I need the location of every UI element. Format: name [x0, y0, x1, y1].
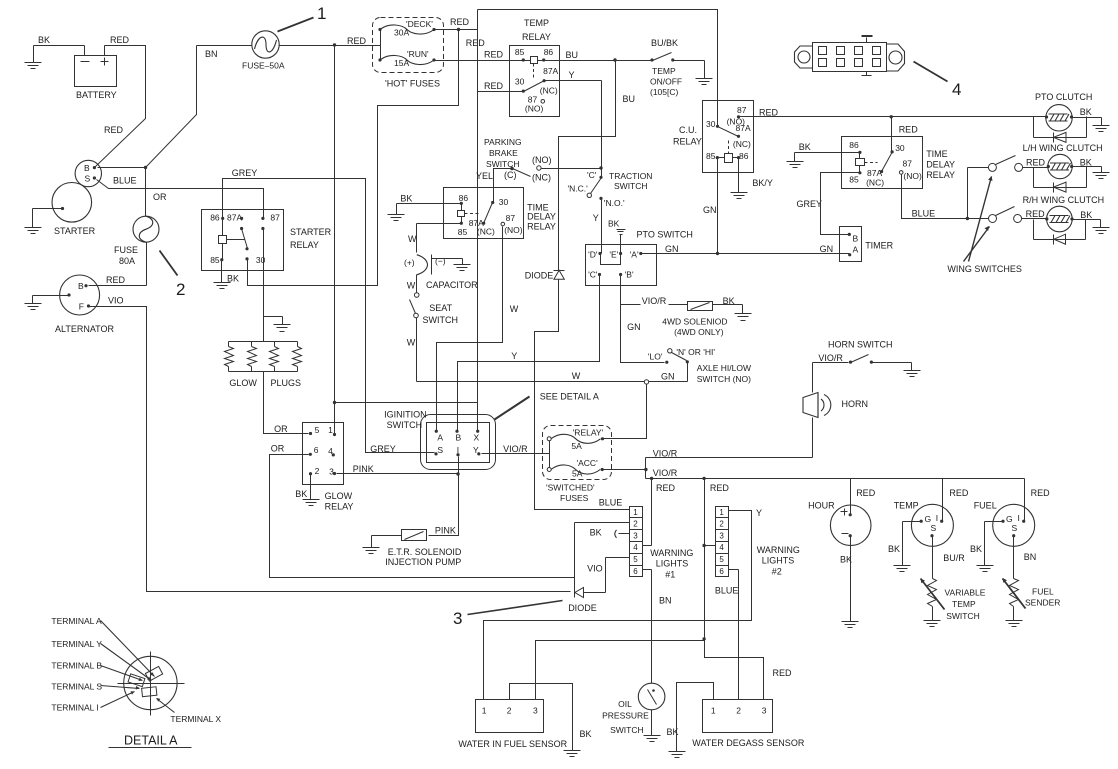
label wing switches [947, 176, 1022, 274]
svg-text:VIO/R: VIO/R [818, 353, 843, 363]
svg-text:86: 86 [210, 212, 220, 222]
svg-text:TEMP: TEMP [952, 599, 976, 609]
diode D5 (R/H clutch) [1054, 234, 1066, 244]
svg-text:BK: BK [400, 194, 412, 204]
wire VIO alternator F [89, 296, 571, 592]
svg-text:HORN SWITCH: HORN SWITCH [828, 340, 893, 350]
svg-text:BN: BN [659, 595, 672, 605]
wire relay fuse to W node [603, 385, 647, 439]
svg-text:BU: BU [566, 50, 579, 60]
temp relay K2 box [510, 18, 560, 117]
svg-text:W: W [510, 304, 519, 314]
svg-text:1: 1 [711, 706, 716, 716]
pto pins [588, 250, 642, 280]
callout 4 arrow [914, 62, 962, 100]
svg-text:FUSE: FUSE [114, 245, 138, 255]
wire BLUE starter S to relay 87 [97, 176, 264, 219]
wire VIO/R 4wd branch [621, 296, 688, 306]
svg-text:VIO/R: VIO/R [653, 468, 678, 478]
wire top run to C.U. relay [478, 10, 718, 127]
svg-text:RED: RED [110, 35, 130, 45]
svg-text:DIODE: DIODE [568, 603, 597, 613]
svg-text:BLUE: BLUE [715, 585, 739, 595]
svg-text:B: B [456, 433, 462, 443]
svg-text:6: 6 [633, 567, 638, 576]
svg-text:BU/R: BU/R [943, 553, 965, 563]
diode D2 (pto clutch) [1053, 132, 1066, 142]
svg-text:'SWITCHED': 'SWITCHED' [546, 483, 595, 493]
wire RED run fuse to temp relay [435, 50, 531, 61]
wire BK K5 86 ground [787, 142, 860, 168]
svg-text:A: A [853, 244, 859, 254]
svg-text:Y: Y [569, 70, 575, 80]
svg-text:'N' OR 'HI': 'N' OR 'HI' [676, 347, 715, 357]
svg-text:87: 87 [270, 212, 280, 222]
water degass sensor B3 [692, 700, 805, 749]
svg-text:OIL: OIL [618, 699, 632, 709]
svg-text:#2: #2 [772, 567, 782, 577]
svg-text:GREY: GREY [797, 199, 823, 209]
svg-text:HOUR: HOUR [808, 500, 835, 510]
svg-text:TERMINAL B: TERMINAL B [51, 661, 102, 671]
svg-text:RED: RED [773, 668, 793, 678]
svg-text:87A: 87A [227, 212, 242, 222]
wire BN fuse-50A left [146, 46, 252, 168]
wing switch S6 (upper) [968, 156, 1046, 219]
svg-text:STARTER: STARTER [290, 227, 332, 237]
wire BU down to diode [559, 61, 636, 271]
svg-text:4WD SOLENIOD: 4WD SOLENIOD [662, 316, 727, 326]
diode D4 (L/H clutch) [1053, 182, 1066, 192]
svg-text:5A: 5A [572, 469, 583, 479]
svg-text:BK: BK [888, 544, 900, 554]
fuel sender RT2 [1003, 536, 1061, 609]
svg-text:1: 1 [633, 508, 638, 517]
svg-text:85: 85 [515, 47, 525, 57]
svg-text:VIO: VIO [587, 564, 603, 574]
svg-text:1: 1 [328, 425, 333, 435]
svg-text:A: A [437, 433, 443, 443]
svg-text:3: 3 [719, 531, 724, 540]
svg-text:RED: RED [759, 108, 779, 118]
svg-text:'D': 'D' [588, 250, 598, 260]
svg-text:WATER DEGASS SENSOR: WATER DEGASS SENSOR [692, 738, 805, 748]
svg-text:STARTER: STARTER [54, 226, 96, 236]
svg-text:HORN: HORN [842, 399, 869, 409]
warning lights WL2 box [716, 507, 800, 577]
svg-text:RELAY: RELAY [673, 137, 702, 147]
svg-text:TERMINAL S: TERMINAL S [51, 681, 102, 691]
ground (pto E) BK [608, 219, 626, 254]
svg-text:GN: GN [661, 372, 675, 382]
svg-text:WATER IN FUEL SENSOR: WATER IN FUEL SENSOR [458, 739, 567, 749]
wire parking brake NO to Y line [542, 166, 603, 169]
svg-text:BK: BK [1080, 210, 1092, 220]
svg-text:3: 3 [633, 531, 638, 540]
svg-text:4: 4 [952, 80, 961, 99]
svg-text:TERMINAL Y: TERMINAL Y [51, 639, 102, 649]
ground (fuel G) BK [970, 522, 1004, 572]
traction switch S3 [568, 170, 653, 208]
svg-text:GLOW: GLOW [229, 378, 257, 388]
svg-text:BK: BK [295, 489, 307, 499]
wire water-in-fuel 2 ground BK [510, 684, 592, 757]
svg-text:BATTERY: BATTERY [76, 90, 117, 100]
svg-text:PTO SWITCH: PTO SWITCH [637, 230, 693, 240]
svg-text:S: S [1012, 523, 1018, 533]
wire RED deck fuse out [435, 17, 478, 30]
callout 3 arrow [453, 601, 563, 629]
svg-text:RED: RED [106, 275, 126, 285]
svg-text:2: 2 [176, 280, 185, 299]
warning lights WL1 box [630, 507, 694, 580]
wire BLUE diode to warning1 row1 [535, 280, 630, 510]
K5 pins [849, 140, 922, 188]
svg-text:'B': 'B' [625, 270, 634, 280]
svg-text:15A: 15A [394, 58, 409, 68]
svg-text:86: 86 [849, 140, 859, 150]
fuse F1 FUSE-50A [242, 31, 285, 71]
timer U1 [840, 227, 894, 262]
wire BK battery negative [34, 35, 85, 46]
svg-text:86: 86 [544, 47, 554, 57]
svg-text:WING SWITCHES: WING SWITCHES [947, 264, 1022, 274]
svg-text:RED: RED [347, 36, 367, 46]
svg-text:SWITCH: SWITCH [614, 181, 648, 191]
svg-text:(4WD ONLY): (4WD ONLY) [674, 327, 724, 337]
starter solenoid terminals [75, 160, 101, 186]
svg-text:BK: BK [580, 729, 592, 739]
switched fuses box [543, 426, 612, 504]
svg-text:TEMP: TEMP [524, 18, 549, 28]
fuse F5 RELAY 5A [547, 428, 604, 470]
svg-text:SWITCH: SWITCH [423, 315, 459, 325]
fuse F6 ACC 5A [547, 458, 604, 478]
node junction starter B [98, 166, 148, 169]
fuse F3 DECK 30A [378, 19, 435, 61]
fuse F2 FUSE 80A [114, 216, 159, 266]
svg-text:2: 2 [507, 706, 512, 716]
wire RED accessory line [646, 477, 1051, 499]
wire VIO/R ignition Y to fuses [482, 444, 550, 454]
svg-text:SWITCH: SWITCH [486, 159, 520, 169]
clutch M3 L/H [1023, 143, 1103, 187]
svg-text:RED: RED [899, 124, 919, 134]
starter relay K1 box [202, 210, 332, 271]
svg-text:'A': 'A' [630, 250, 639, 260]
svg-text:RED: RED [1031, 488, 1051, 498]
svg-text:RED: RED [1026, 209, 1046, 219]
svg-text:RELAY: RELAY [522, 32, 551, 42]
wire RED fuse 80A to alternator B [89, 243, 147, 286]
node connector (W line) [644, 380, 648, 384]
wire BN WL1 row6 to oil switch [643, 570, 672, 684]
glow relay pins [309, 425, 336, 477]
svg-text:RELAY: RELAY [290, 240, 319, 250]
svg-text:OR: OR [153, 192, 167, 202]
svg-text:85: 85 [849, 175, 859, 185]
ground (alternator) [25, 296, 70, 310]
svg-text:85: 85 [458, 227, 468, 237]
svg-text:5: 5 [633, 555, 638, 564]
svg-text:BK: BK [970, 544, 982, 554]
wire YEL parking brake to TDR 30 [476, 169, 513, 203]
wire GN C.U. 85 down [703, 158, 718, 254]
svg-text:SWITCH: SWITCH [387, 420, 423, 430]
svg-text:BK: BK [590, 527, 602, 537]
svg-text:INJECTION PUMP: INJECTION PUMP [385, 557, 461, 567]
svg-text:SEE DETAIL A: SEE DETAIL A [540, 392, 599, 402]
wire Y traction NO to PTO D [593, 199, 602, 254]
wire BU temp relay 86 [560, 50, 653, 62]
connector stub WL1 row3 BK [590, 527, 630, 538]
diode D1 (BU to warning light) [525, 270, 565, 280]
svg-text:BK: BK [608, 219, 620, 229]
svg-text:PRESSURE: PRESSURE [602, 711, 649, 721]
svg-text:6: 6 [719, 567, 724, 576]
ground (battery negative) [25, 46, 42, 69]
svg-text:RED: RED [104, 125, 124, 135]
glow plugs GP1 [225, 342, 302, 389]
ground (capacitor) [432, 259, 471, 271]
svg-text:B: B [853, 234, 859, 244]
svg-text:'N.O.': 'N.O.' [604, 198, 625, 208]
svg-text:(C): (C) [504, 170, 517, 180]
svg-text:BK: BK [38, 35, 50, 45]
wire GN pto B to axle LO [621, 275, 665, 363]
horn switch S9 [828, 340, 893, 364]
svg-text:5: 5 [719, 555, 724, 564]
glow relay K6 box [303, 423, 354, 512]
svg-text:2: 2 [736, 706, 741, 716]
svg-text:85: 85 [706, 151, 716, 161]
hot fuses box [373, 18, 444, 89]
svg-text:30: 30 [499, 197, 509, 207]
ground (C.U. 86) BK/Y [731, 158, 773, 199]
svg-text:W: W [572, 371, 581, 381]
svg-text:(NO): (NO) [903, 171, 922, 181]
svg-text:I: I [1018, 513, 1020, 523]
oil pressure switch S10 [602, 683, 665, 735]
svg-text:TEMP: TEMP [894, 501, 919, 511]
wire BK K3 86 ground [388, 194, 462, 221]
variable temp switch RT1 [921, 536, 986, 622]
svg-text:BLUE: BLUE [912, 209, 936, 219]
svg-text:LIGHTS: LIGHTS [762, 556, 795, 566]
wire WL1 row4 to acc line [643, 479, 652, 546]
svg-text:1: 1 [719, 508, 724, 517]
svg-text:E.T.R. SOLENOID: E.T.R. SOLENOID [388, 547, 462, 557]
svg-text:30: 30 [515, 76, 525, 86]
wire VIO/R horn feed [646, 418, 813, 479]
svg-text:DELAY: DELAY [926, 159, 955, 169]
svg-text:3: 3 [533, 706, 538, 716]
svg-text:TERMINAL X: TERMINAL X [170, 714, 221, 724]
svg-text:RED: RED [856, 488, 876, 498]
svg-text:'RELAY': 'RELAY' [573, 428, 604, 438]
svg-text:GN: GN [703, 205, 717, 215]
svg-text:6: 6 [314, 445, 319, 455]
svg-text:FUSE–50A: FUSE–50A [242, 61, 285, 71]
label see detail a [495, 392, 599, 420]
svg-text:'RUN': 'RUN' [407, 49, 429, 59]
wire RED WL2 row4 to degass 3 [702, 546, 792, 700]
svg-text:(105[C): (105[C) [650, 87, 679, 97]
svg-text:SWITCH (NO): SWITCH (NO) [697, 374, 751, 384]
svg-text:RED: RED [949, 488, 969, 498]
svg-text:'DECK': 'DECK' [406, 19, 433, 29]
battery B1 [75, 46, 117, 101]
svg-text:'C': 'C' [588, 270, 598, 280]
svg-text:5A: 5A [571, 441, 582, 451]
svg-text:85: 85 [210, 255, 220, 265]
svg-text:86: 86 [459, 193, 469, 203]
ground (glow plugs) [264, 317, 291, 332]
connector J1 [795, 36, 905, 76]
wire Y temp relay 87A to traction C [545, 70, 602, 178]
svg-text:1: 1 [482, 706, 487, 716]
svg-text:4: 4 [633, 543, 638, 552]
ground (variable temp) [924, 607, 941, 627]
svg-text:F: F [79, 302, 84, 312]
svg-text:87A: 87A [867, 168, 882, 178]
svg-text:C.U.: C.U. [679, 125, 697, 135]
wire RED C.U. 87 to PTO clutch [739, 108, 1047, 135]
svg-text:87: 87 [903, 158, 913, 168]
svg-text:B: B [84, 163, 90, 173]
svg-text:AXLE HI/LOW: AXLE HI/LOW [697, 363, 751, 373]
svg-text:2: 2 [315, 466, 320, 476]
svg-text:PTO CLUTCH: PTO CLUTCH [1035, 92, 1092, 102]
callout 2 arrow [160, 251, 186, 300]
svg-text:TEMP: TEMP [652, 66, 676, 76]
svg-text:87: 87 [506, 213, 516, 223]
svg-text:30: 30 [256, 255, 266, 265]
svg-text:(NO): (NO) [532, 155, 552, 165]
detail A terminal labels [51, 616, 221, 724]
svg-text:RELAY: RELAY [527, 222, 556, 232]
svg-text:'LO': 'LO' [648, 352, 663, 362]
svg-text:IGINITION: IGINITION [384, 410, 427, 420]
svg-text:W: W [408, 234, 417, 244]
svg-text:RED: RED [450, 17, 470, 27]
svg-text:BRAKE: BRAKE [489, 148, 518, 158]
diode D6 VIO [568, 588, 605, 614]
svg-text:I: I [936, 513, 938, 523]
axle switch S5 [648, 347, 751, 384]
svg-text:DIODE: DIODE [525, 270, 554, 280]
svg-text:R/H WING CLUTCH: R/H WING CLUTCH [1023, 195, 1105, 205]
wire Y pto C to ignition B [458, 275, 600, 432]
svg-text:L/H WING CLUTCH: L/H WING CLUTCH [1023, 143, 1103, 153]
svg-text:TERMINAL I: TERMINAL I [51, 702, 98, 712]
K3 pins [458, 193, 523, 237]
svg-text:SENDER: SENDER [1025, 598, 1060, 608]
pto switch S4 box [586, 230, 693, 286]
wing switch S7 (lower) [989, 207, 1046, 223]
svg-text:DELAY: DELAY [527, 212, 556, 222]
svg-text:FUEL: FUEL [1032, 587, 1054, 597]
svg-text:4: 4 [719, 543, 724, 552]
wire W K3 85 to capacitor [408, 224, 462, 253]
svg-text:2: 2 [633, 520, 638, 529]
svg-text:WARNING: WARNING [650, 548, 693, 558]
svg-text:DETAIL A: DETAIL A [124, 733, 178, 747]
svg-text:SWITCH: SWITCH [946, 611, 980, 621]
wire K5 30 from PTO clutch feed [891, 117, 893, 152]
parking brake switch S1 [484, 137, 552, 183]
svg-text:BK: BK [227, 274, 239, 284]
svg-text:87A: 87A [736, 123, 751, 133]
svg-text:(NC): (NC) [866, 178, 884, 188]
seat switch S2 [407, 275, 458, 348]
ground (temp G) BK [888, 522, 922, 572]
wire starter relay 30 to hot fuses [248, 28, 461, 286]
ground (L/H clutch) BK [1072, 158, 1110, 179]
svg-text:S: S [931, 523, 937, 533]
time delay relay K5 box [842, 137, 956, 189]
wire Y WL2 row1 to fuel sensor [484, 508, 763, 700]
alternator G1 [55, 275, 115, 334]
svg-text:PARKING: PARKING [484, 137, 522, 147]
svg-text:5: 5 [315, 425, 320, 435]
svg-text:RED: RED [656, 483, 676, 493]
svg-text:87: 87 [737, 105, 747, 115]
wire W K3 87 to ignition A [437, 227, 519, 432]
svg-text:30: 30 [895, 143, 905, 153]
svg-text:(NC): (NC) [540, 86, 558, 96]
wire PINK glow relay 3 [337, 464, 459, 474]
ground (temp on/off) [673, 61, 713, 85]
wire W line east [649, 362, 688, 382]
svg-text:TIMER: TIMER [865, 240, 893, 250]
ground (ETR) [363, 536, 402, 554]
svg-text:TRACTION: TRACTION [609, 171, 652, 181]
svg-text:86: 86 [739, 151, 749, 161]
ground (horn switch) [872, 363, 921, 377]
svg-text:BU/BK: BU/BK [651, 38, 678, 48]
solenoid ETR [385, 530, 462, 567]
svg-text:30A: 30A [394, 28, 409, 38]
svg-text:(NO): (NO) [525, 103, 544, 113]
svg-text:#1: #1 [665, 569, 675, 579]
starter relay pins [210, 212, 280, 265]
ground (glow relay 2) BK [295, 474, 319, 506]
svg-text:3: 3 [329, 467, 334, 477]
wire BLUE WL2 row6 to degass 2 [715, 570, 739, 700]
svg-text:BLUE: BLUE [599, 497, 623, 507]
svg-text:RED: RED [484, 50, 504, 60]
svg-text:Y: Y [511, 351, 517, 361]
svg-text:TIME: TIME [926, 149, 948, 159]
svg-text:BK/Y: BK/Y [752, 178, 773, 188]
svg-text:'E': 'E' [609, 250, 618, 260]
svg-text:OR: OR [274, 424, 288, 434]
switch temp on/off [650, 38, 682, 97]
wire VIO/R acc fuse east [603, 449, 678, 479]
svg-text:LIGHTS: LIGHTS [656, 559, 689, 569]
svg-text:GLOW: GLOW [325, 491, 353, 501]
wire RED battery to starter B [96, 35, 146, 167]
svg-text:SEAT: SEAT [429, 303, 452, 313]
starter motor M1 [52, 183, 96, 237]
svg-text:(−): (−) [435, 256, 446, 266]
svg-text:FUEL: FUEL [974, 501, 997, 511]
svg-text:YEL: YEL [476, 171, 493, 181]
ground (pto clutch) BK [1072, 107, 1110, 132]
pto clutch M2 [1034, 92, 1093, 138]
svg-text:GREY: GREY [370, 444, 396, 454]
